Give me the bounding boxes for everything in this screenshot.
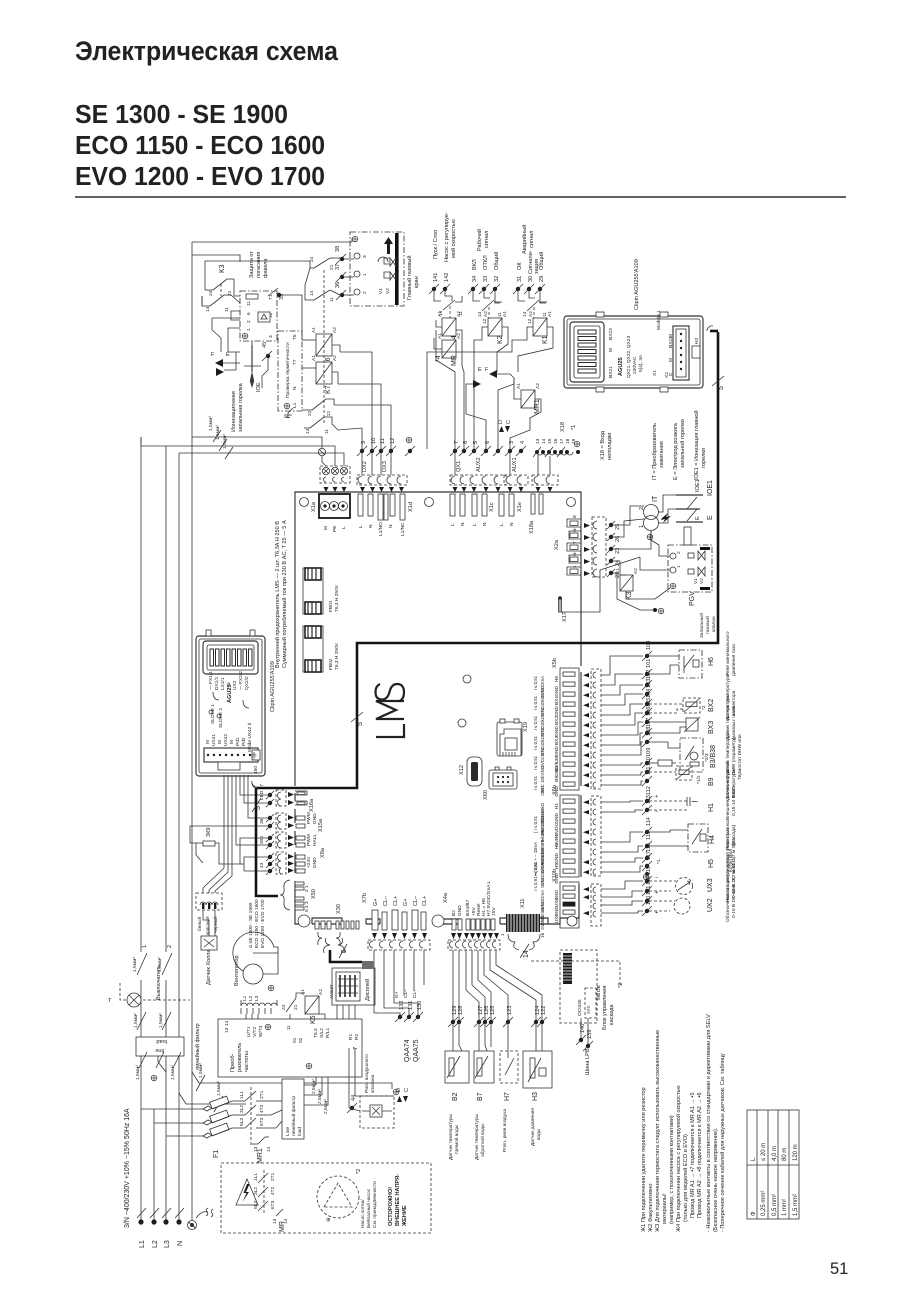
svg-text:Вентилятор: Вентилятор — [234, 955, 240, 986]
svg-text:2T1: 2T1 — [259, 1090, 265, 1099]
svg-text:L1/NC: L1/NC — [400, 522, 406, 536]
line filter 2 box — [282, 1079, 304, 1139]
svg-text:38: 38 — [335, 246, 341, 252]
wire L1 vertical — [140, 437, 142, 952]
svg-text:L3: L3 — [254, 995, 260, 1001]
svg-text:M: M — [323, 526, 329, 530]
svg-text:16: 16 — [553, 438, 559, 444]
svg-text:111: 111 — [646, 766, 652, 775]
svg-text:1,5мм²: 1,5мм² — [216, 1081, 222, 1096]
svg-text:сигнал: сигнал — [484, 231, 490, 248]
svg-text:A2: A2 — [535, 383, 541, 389]
svg-text:30b: 30b — [259, 836, 265, 844]
svg-text:11: 11 — [246, 301, 252, 306]
svg-text:1: 1 — [676, 565, 682, 568]
svg-text:C: C — [404, 1088, 410, 1092]
svg-text:Насос с регулируе-: Насос с регулируе- — [444, 212, 450, 262]
svg-text:1,5мм²: 1,5мм² — [208, 416, 214, 431]
svg-text:A1: A1 — [311, 355, 317, 361]
svg-text:4T2: 4T2 — [270, 1186, 276, 1195]
bold bus X90 to display — [330, 950, 362, 962]
svg-text:Преоб-: Преоб- — [230, 1053, 236, 1072]
svg-text:32: 32 — [494, 276, 500, 282]
svg-text:15: 15 — [547, 438, 553, 444]
fuse FB01 — [303, 568, 340, 614]
svg-text:3: 3 — [268, 335, 274, 338]
svg-text:14: 14 — [522, 311, 528, 317]
wire L3 vertical — [178, 453, 180, 1220]
svg-text:обратной воды: обратной воды — [479, 1123, 486, 1157]
svg-text:Электрическая схема: Электрическая схема — [75, 36, 339, 66]
wires X7b plug down to QAA — [374, 950, 400, 1015]
svg-text:106: 106 — [646, 707, 652, 716]
svg-text:M: M — [229, 740, 235, 744]
svg-text:A2: A2 — [332, 355, 338, 361]
svg-text:0,25 mm²: 0,25 mm² — [761, 1191, 767, 1216]
svg-text:R2: R2 — [354, 1034, 360, 1040]
svg-text:37: 37 — [335, 264, 341, 270]
AUX1 pins — [504, 441, 528, 492]
pin circles — [354, 253, 360, 259]
svg-text:запальной горелки: запальной горелки — [679, 419, 686, 468]
svg-text:AGU25: AGU25 — [618, 357, 624, 376]
svg-text:IOE1: IOE1 — [695, 479, 701, 492]
svg-text:BX2: BX2 — [708, 699, 715, 712]
svg-text:122: 122 — [541, 1006, 547, 1015]
svg-text:R/L1: R/L1 — [325, 1028, 331, 1038]
connector X18a slots — [529, 494, 543, 534]
QX1 plug strip — [450, 475, 506, 485]
svg-text:Аварийный: Аварийный — [521, 225, 528, 254]
svg-text:QX21, QX22, QX23: QX21, QX22, QX23 — [626, 336, 632, 378]
svg-text:UX3: UX3 — [554, 898, 560, 908]
svg-text:линейный фильтр: линейный фильтр — [290, 1096, 297, 1136]
svg-text:Обозначение мощности котла: Обозначение мощности котла — [725, 855, 731, 922]
sensor B7 — [474, 1024, 494, 1160]
wire N vertical — [191, 242, 193, 1225]
switch Q1 pole1 — [137, 953, 147, 975]
svg-text:2: 2 — [676, 551, 682, 554]
svg-text:Рмin. воздушного: Рмin. воздушного — [364, 1054, 370, 1093]
svg-text:15V: 15V — [491, 907, 497, 916]
ground in box — [352, 236, 358, 242]
ionisation electrode IOE — [244, 342, 272, 392]
svg-text:SLOPE 2: SLOPE 2 — [218, 708, 224, 728]
contact 22/21 — [312, 399, 326, 410]
svg-text:неполадки: неполадки — [607, 433, 613, 460]
svg-text:— FX2/2: — FX2/2 — [238, 671, 244, 690]
svg-text:Общий: Общий — [493, 252, 500, 270]
svg-text:24: 24 — [281, 1004, 287, 1010]
main gas valve box — [350, 232, 404, 306]
AGU25 bottom pin strip — [204, 748, 258, 762]
svg-text:сигнал: сигнал — [529, 231, 535, 248]
E F arrows right — [489, 370, 497, 378]
svg-text:погасания: погасания — [256, 252, 262, 278]
svg-text:Pd2: Pd2 — [241, 737, 247, 746]
svg-text:100: 100 — [646, 641, 652, 650]
relay K6 — [302, 327, 340, 366]
svg-text:11: 11 — [324, 429, 330, 434]
svg-text:ОТКЛ: ОТКЛ — [483, 255, 489, 270]
svg-text:3L2: 3L2 — [239, 1105, 245, 1113]
connector X17 stub — [558, 596, 568, 622]
svg-text:L: L — [341, 526, 347, 529]
connector X15a left edge — [296, 812, 324, 832]
svg-text:3L2: 3L2 — [253, 1187, 259, 1195]
contact 14/11 lower — [310, 417, 324, 428]
svg-text:A1: A1 — [547, 311, 553, 317]
connector X50 — [280, 880, 317, 912]
svg-text:X50: X50 — [311, 889, 317, 899]
module AGU25 top — [564, 259, 703, 392]
svg-text:6T3: 6T3 — [270, 1200, 276, 1209]
svg-text:X16a: X16a — [309, 798, 315, 812]
svg-text:IOE1: IOE1 — [707, 480, 714, 496]
svg-text:X2a: X2a — [554, 539, 560, 550]
svg-text:110: 110 — [646, 757, 652, 766]
svg-text:Pmin. реле воздуха: Pmin. реле воздуха — [502, 1109, 508, 1152]
hall box with X — [201, 936, 217, 950]
connector X6b — [552, 785, 601, 884]
frequency converter box — [218, 1019, 362, 1077]
svg-text:газовый: газовый — [704, 616, 711, 634]
svg-text:C: C — [506, 420, 512, 424]
svg-text:QAA75: QAA75 — [413, 1039, 420, 1062]
svg-text:GND: GND — [312, 857, 318, 868]
signal terminals 141/142 — [429, 212, 464, 318]
svg-text:H1: H1 — [708, 803, 715, 812]
svg-text:белый: белый — [196, 917, 203, 931]
bus slash 5 (vertical mid) — [351, 712, 363, 722]
svg-text:V1: V1 — [378, 288, 384, 294]
svg-text:MR1: MR1 — [534, 399, 541, 414]
svg-text:F1: F1 — [213, 1150, 220, 1158]
svg-text:X1c: X1c — [489, 502, 495, 512]
svg-text:L: L — [358, 525, 364, 528]
svg-text:13: 13 — [535, 438, 541, 444]
MR1 aux contact 13-14 — [258, 1137, 265, 1144]
contact 24/21 (gas valve) — [314, 258, 330, 268]
hmm L2 tap — [153, 1109, 155, 1123]
svg-text:H5: H5 — [554, 863, 560, 869]
svg-text:*2: *2 — [356, 1169, 362, 1174]
svg-text:T6,3 H 250V: T6,3 H 250V — [334, 584, 340, 612]
svg-text:X1: X1 — [652, 370, 658, 376]
svg-text:разователь: разователь — [237, 1043, 243, 1072]
svg-text:36: 36 — [259, 818, 265, 824]
svg-text:5(4), 3A: 5(4), 3A — [638, 354, 644, 372]
svg-text:CL+: CL+ — [412, 989, 418, 998]
fan choke coil — [241, 1000, 277, 1006]
cable table — [747, 1110, 799, 1219]
svg-text:DX3: DX3 — [382, 461, 388, 472]
svg-text:IOE: IOE — [256, 382, 262, 392]
svg-text:UX2: UX2 — [554, 914, 560, 924]
svg-text:104: 104 — [646, 689, 652, 698]
svg-text:105: 105 — [646, 698, 652, 707]
SLOPE jumpers — [209, 710, 213, 714]
X5b plug hooks — [591, 669, 601, 789]
svg-text:Провод MR A2 → ▪8 подключается: Провод MR A2 → ▪8 подключается к MR A2 →… — [697, 1092, 703, 1218]
svg-text:Внутренний предохранитель LMS: Внутренний предохранитель LMS — 2 шт. T6… — [274, 521, 281, 668]
connector X1a — [311, 494, 350, 532]
warning zone dashed box — [221, 1163, 431, 1233]
X1a upper plug — [320, 466, 350, 492]
svg-text:IOE1 = Ионизация главной: IOE1 = Ионизация главной — [693, 410, 700, 480]
svg-text:112: 112 — [646, 786, 652, 795]
svg-text:ВНЕШНЕЕ НАПРЯ-: ВНЕШНЕЕ НАПРЯ- — [395, 1174, 401, 1226]
svg-text:21: 21 — [329, 264, 335, 270]
wire slashes 1,5mm2 — [137, 1012, 146, 1030]
svg-text:ECO 1150 - ECO 1600: ECO 1150 - ECO 1600 — [75, 130, 325, 160]
ignition monitor box — [240, 288, 285, 341]
svg-text:QX1: QX1 — [456, 461, 462, 472]
svg-text:2,5мм²: 2,5мм² — [323, 1099, 329, 1114]
svg-text:Главный газовый: Главный газовый — [406, 255, 413, 300]
svg-text:SLOPE 1: SLOPE 1 — [210, 704, 216, 724]
svg-text:V/T2: V/T2 — [252, 1027, 258, 1037]
svg-text:103: 103 — [646, 679, 652, 688]
svg-text:X11: X11 — [520, 898, 526, 908]
svg-text:B3/B38: B3/B38 — [710, 745, 717, 768]
svg-text:load: load — [156, 1038, 167, 1044]
svg-text:114: 114 — [646, 817, 652, 826]
svg-text:A2: A2 — [332, 327, 338, 333]
svg-text:M: M — [217, 740, 223, 744]
svg-text:2: 2 — [246, 320, 252, 323]
svg-text:A1: A1 — [300, 989, 306, 995]
svg-text:GND: GND — [540, 746, 545, 756]
svg-text:черный: черный — [212, 916, 219, 933]
svg-text:Дисплей: Дисплей — [364, 979, 371, 1001]
svg-text:14: 14 — [205, 306, 211, 312]
svg-text:1,5мм²: 1,5мм² — [135, 1065, 141, 1080]
ground near K3 — [653, 608, 657, 612]
svg-text:V2: V2 — [699, 578, 705, 584]
svg-text:1,5 mm²: 1,5 mm² — [793, 1194, 799, 1216]
svg-text:UX2: UX2 — [707, 898, 714, 912]
svg-text:33: 33 — [483, 276, 489, 282]
notes block — [641, 1014, 726, 1232]
svg-text:30: 30 — [528, 276, 534, 282]
svg-text:2T1: 2T1 — [270, 1172, 276, 1181]
air valve actuator — [347, 1048, 410, 1128]
svg-text:2: 2 — [167, 945, 173, 948]
svg-text:AUX2: AUX2 — [476, 457, 482, 472]
mount hole — [463, 675, 471, 683]
svg-text:11: 11 — [329, 297, 335, 302]
svg-text:N: N — [572, 528, 578, 532]
contact 14/11 (gas valve) — [314, 290, 330, 300]
X4a plug — [448, 940, 500, 950]
svg-text:Clipin AGU255'A109: Clipin AGU255'A109 — [634, 259, 640, 310]
dashed link X11 to OCI — [531, 961, 620, 985]
svg-text:B2: B2 — [451, 910, 457, 916]
svg-text:Пуск / Стоп: Пуск / Стоп — [433, 230, 439, 259]
svg-text:1,5мм²: 1,5мм² — [158, 1013, 164, 1028]
sensor BX2 — [649, 674, 737, 720]
svg-text:— FX1/1: — FX1/1 — [208, 671, 214, 690]
wire top rail — [192, 241, 352, 243]
svg-text:11: 11 — [286, 1025, 292, 1030]
svg-text:14: 14 — [224, 1020, 230, 1026]
wires gasvalve top — [351, 238, 353, 242]
connector X2a right edge — [554, 515, 621, 578]
svg-text:2,5мм²: 2,5мм² — [317, 1089, 323, 1104]
svg-text:11: 11 — [224, 307, 230, 312]
svg-text:воды: воды — [537, 1128, 542, 1140]
filter terminals — [139, 1052, 147, 1068]
svg-text:Ионизационная: Ионизационная — [231, 391, 237, 432]
svg-text:132: 132 — [399, 1001, 405, 1010]
svg-text:N: N — [509, 522, 515, 526]
svg-text:линейный фильтр: линейный фильтр — [194, 1023, 201, 1070]
wires MR1 to filter2 — [266, 1100, 282, 1102]
module AGU25 clip-in (left) — [196, 636, 265, 776]
svg-text:R1: R1 — [348, 1034, 354, 1040]
svg-text:Рабочий: Рабочий — [476, 229, 483, 251]
svg-text:горелки: горелки — [701, 448, 707, 468]
svg-text:Ж4 При подключении насоса с ре: Ж4 При подключении насоса с регулируемой… — [675, 1085, 682, 1232]
svg-text:QX2/2: QX2/2 — [244, 676, 250, 690]
svg-text:119: 119 — [646, 866, 652, 875]
svg-text:Module 1: Module 1 — [656, 310, 662, 330]
wires K4/MR to QX1 — [436, 320, 442, 327]
thick bar — [395, 233, 399, 305]
sensor B3/B38 — [649, 729, 743, 780]
svg-text:16: 16 — [540, 932, 546, 938]
svg-text:зажигания: зажигания — [659, 441, 665, 468]
svg-text:GND: GND — [540, 876, 545, 886]
svg-text:X4a: X4a — [443, 892, 449, 903]
sensor B9 — [649, 760, 737, 800]
mount hole — [432, 915, 444, 927]
svg-text:E: E — [707, 515, 714, 520]
svg-text:125: 125 — [490, 1006, 496, 1015]
svg-text:12: 12 — [527, 318, 533, 324]
LMS board outline — [295, 492, 581, 924]
svg-text:*1: *1 — [656, 859, 662, 864]
fuse F1 c — [203, 1133, 212, 1138]
svg-text:L2: L2 — [152, 1240, 159, 1248]
valve V1 — [384, 272, 396, 280]
leak test box — [278, 331, 302, 418]
svg-text:18: 18 — [565, 438, 571, 444]
svg-text:A2: A2 — [528, 311, 534, 317]
svg-text:LX1/1: LX1/1 — [220, 677, 226, 690]
svg-text:1: 1 — [639, 525, 645, 528]
svg-text:131: 131 — [408, 1001, 414, 1010]
bold bus AGU right — [257, 332, 718, 788]
svg-text:1: 1 — [572, 565, 578, 568]
svg-text:L1/NO: L1/NO — [378, 522, 384, 536]
bus slash 5 (right) — [712, 376, 724, 386]
svg-text:5: 5 — [718, 386, 725, 390]
svg-text:2,5мм²: 2,5мм² — [311, 1079, 317, 1094]
fan Вентилятор — [233, 899, 278, 1019]
svg-text:X1a: X1a — [311, 501, 317, 512]
connector X10b strip — [552, 869, 601, 928]
svg-text:Pd1: Pd1 — [235, 737, 241, 746]
svg-text:230VAC: 230VAC — [632, 356, 638, 374]
svg-text:I ≤ 0,51: I ≤ 0,51 — [533, 755, 538, 770]
svg-text:X5b: X5b — [552, 658, 558, 668]
terminal slashes — [137, 1208, 146, 1218]
svg-text:5VDC: 5VDC — [540, 756, 545, 767]
svg-text:1,5мм²: 1,5мм² — [215, 425, 221, 440]
svg-text:4: 4 — [520, 441, 526, 444]
connector X4a — [443, 880, 500, 950]
svg-text:N: N — [388, 524, 394, 528]
svg-text:GND: GND — [540, 786, 545, 796]
svg-text:118: 118 — [646, 876, 652, 885]
svg-text:3: 3 — [362, 255, 368, 258]
svg-text:GND: GND — [540, 706, 545, 716]
svg-text:1: 1 — [362, 273, 368, 276]
svg-text:Реле минимального: Реле минимального — [725, 631, 731, 676]
svg-text:V2: V2 — [385, 288, 391, 294]
svg-text:N: N — [292, 386, 298, 390]
svg-text:BX4/B7: BX4/B7 — [465, 899, 471, 916]
mount hole — [298, 915, 310, 927]
connector X60 — [483, 767, 517, 800]
svg-text:CL−: CL− — [383, 896, 389, 906]
svg-text:OCI345: OCI345 — [577, 999, 583, 1016]
svg-text:кран: кран — [414, 276, 420, 288]
wires from AGU to led pins — [240, 775, 268, 795]
wires ignition box left — [205, 261, 310, 290]
svg-text:Внешнее влияние 0-10: Внешнее влияние 0-10 — [725, 769, 731, 820]
svg-text:MR: MR — [279, 1221, 286, 1232]
connector X11 comb — [500, 898, 546, 958]
svg-text:GND: GND — [554, 725, 560, 736]
svg-text:14: 14 — [477, 311, 483, 317]
input H5 — [601, 843, 734, 880]
mains terminal dots — [138, 1219, 143, 1224]
svg-text:GND: GND — [554, 852, 560, 863]
svg-text:H4: H4 — [709, 835, 716, 844]
X18 pins with loops — [532, 422, 613, 492]
svg-text:3/N ~400/230V +10% −15% 50H: 3/N ~400/230V +10% −15% 50Hz 16A — [124, 1108, 131, 1228]
svg-text:H2: H2 — [694, 338, 700, 344]
svg-text:PWM: PWM — [306, 812, 312, 824]
svg-text:17: 17 — [559, 438, 565, 444]
svg-text:0-10 В DC макс. 2,7 м SELV: 0-10 В DC макс. 2,7 м SELV — [731, 856, 737, 918]
svg-text:1: 1 — [142, 945, 148, 948]
relay K1 — [427, 311, 553, 449]
svg-text:128: 128 — [458, 1006, 464, 1015]
svg-text:14: 14 — [305, 428, 311, 434]
svg-text:−: − — [655, 875, 658, 881]
svg-text:AUX1: AUX1 — [512, 457, 518, 472]
svg-text:141: 141 — [433, 273, 439, 282]
svg-text:*2: *2 — [701, 705, 707, 710]
flow switch H4 — [601, 817, 737, 852]
svg-text:108: 108 — [646, 727, 652, 736]
display wires down — [336, 1005, 338, 1019]
bold bus AGU to X50 — [256, 788, 278, 896]
wires filter2 up to freq converter — [304, 1077, 316, 1085]
svg-text:121: 121 — [646, 886, 652, 895]
svg-text:PGV: PGV — [689, 591, 696, 606]
svg-text:D: D — [498, 420, 504, 424]
svg-text:- Поперечное сечение кабелей д: - Поперечное сечение кабелей для наружны… — [719, 1053, 726, 1232]
svg-text:Бейпасный насос: Бейпасный насос — [365, 1188, 372, 1228]
svg-text:EVO 1200 - EVO 1700: EVO 1200 - EVO 1700 — [260, 899, 266, 948]
svg-text:(например, с позолоченными кон: (например, с позолоченными контактами) — [669, 1115, 675, 1224]
svg-text:A2: A2 — [318, 989, 324, 995]
